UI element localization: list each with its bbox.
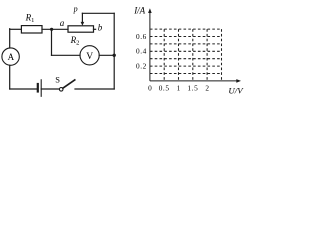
wire top-left	[10, 28, 22, 30]
y-axis	[149, 11, 151, 81]
svg-text:b: b	[98, 23, 103, 33]
wire left vertical upper	[9, 29, 11, 48]
switch S pivot	[59, 88, 63, 92]
rheostat R2 body	[68, 26, 94, 32]
svg-text:0.6: 0.6	[136, 32, 147, 41]
gridline h 0.3	[150, 58, 222, 60]
svg-text:I/A: I/A	[133, 5, 145, 15]
resistor R1	[21, 26, 42, 33]
gridline v 2.0	[206, 29, 208, 81]
ammeter A	[2, 48, 19, 65]
x-axis arrow	[236, 79, 241, 83]
gridline h 0.1	[150, 73, 222, 75]
gridline h 0.6	[150, 36, 222, 38]
rheostat slider arrow	[81, 13, 83, 23]
battery plate positive long thin	[40, 80, 42, 97]
wire node a down	[51, 29, 53, 55]
gridline v 1.5	[192, 29, 194, 81]
wire right vertical	[113, 13, 115, 89]
junction dot right	[113, 54, 116, 57]
svg-text:1: 1	[177, 83, 181, 92]
svg-text:S: S	[55, 75, 60, 85]
svg-text:0.5: 0.5	[159, 83, 170, 92]
wire left vertical lower	[9, 65, 11, 89]
gridline h 0.5	[150, 43, 222, 45]
gridline h 0.2	[150, 65, 222, 67]
svg-text:1.5: 1.5	[187, 83, 198, 92]
y-axis arrow	[148, 8, 152, 13]
gridline v 0.5	[163, 29, 165, 81]
wire bottom left	[10, 88, 38, 90]
svg-text:0.4: 0.4	[136, 47, 147, 56]
battery plate negative short thick	[37, 84, 39, 92]
gridline h 0.4	[150, 50, 222, 52]
node a	[50, 28, 53, 31]
wire switch to right	[75, 88, 114, 90]
graph axes	[150, 11, 238, 81]
wire voltmeter to right vertical	[99, 54, 114, 56]
wire battery to switch	[41, 88, 59, 90]
svg-text:U/V: U/V	[228, 86, 244, 96]
svg-text:0: 0	[148, 83, 152, 92]
grid dashed	[150, 29, 222, 81]
wire slider p to right	[82, 12, 114, 14]
switch lever	[63, 80, 75, 88]
wire stub b	[94, 28, 96, 30]
svg-text:2: 2	[205, 83, 209, 92]
svg-text:A: A	[8, 52, 15, 62]
svg-text:p: p	[73, 5, 78, 14]
voltmeter V	[80, 46, 99, 65]
gridline h 0.7	[150, 28, 222, 30]
wire R1 to node a	[42, 28, 68, 30]
gridline v 1.0	[178, 29, 180, 81]
wire to voltmeter	[52, 54, 81, 56]
gridline v 2.5	[221, 29, 223, 81]
svg-text:a: a	[60, 18, 65, 28]
x-axis	[150, 80, 238, 82]
svg-text:0.2: 0.2	[136, 62, 147, 71]
svg-text:V: V	[86, 52, 93, 62]
